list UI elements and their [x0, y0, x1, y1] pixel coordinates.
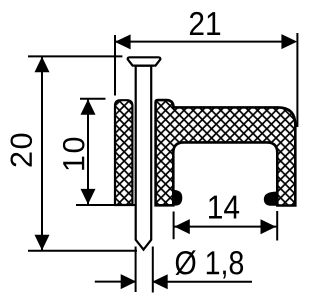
label diameter 1,8 — [175, 250, 243, 278]
diameter dimension left extension line — [135, 247, 137, 293]
dimension 10 line — [87, 99, 89, 205]
dimension 21 line — [116, 41, 295, 43]
clip left bar (hatched) — [115, 100, 132, 205]
dimension 14 arrow right — [261, 219, 277, 234]
dimension 21 left extension line — [114, 35, 116, 96]
dimension 20 bottom extension line — [28, 250, 137, 252]
dimension 14 line — [174, 226, 276, 228]
dimension 14 arrow left — [174, 219, 190, 234]
dimension 10 arrow up — [81, 99, 96, 115]
label 10 (rotated) — [63, 138, 85, 170]
diameter arrow pointing left — [152, 274, 168, 289]
clip main body (hatched) — [156, 100, 296, 205]
clip left foot (solid) — [172, 190, 182, 206]
diameter arrow pointing right — [121, 274, 137, 289]
dimension 21 arrow left — [115, 34, 131, 49]
dimension 20 line — [41, 56, 43, 250]
dimension 10 bottom extension line (runs under clip foot to nail) — [76, 204, 137, 206]
dimension 21 arrow right — [281, 34, 297, 49]
dimension 20 arrow down — [35, 235, 50, 251]
dimension 10 arrow down — [81, 189, 96, 205]
dimension 10 top extension line — [80, 98, 106, 100]
label 21 — [190, 12, 220, 35]
dimension 21 right extension line — [296, 33, 298, 127]
diameter dimension left line — [95, 281, 136, 283]
dimension 14 left extension line — [173, 212, 175, 240]
dimension 14 right extension line — [276, 211, 278, 241]
label 20 (rotated) — [11, 134, 33, 167]
nail head — [128, 57, 161, 65]
dimension 20 top extension line — [28, 55, 122, 57]
nail shaft and tip — [136, 66, 152, 250]
dimension 20 arrow up — [35, 57, 50, 73]
label 14 — [209, 196, 239, 219]
clip right foot (solid) — [264, 192, 279, 206]
diameter dimension right extension line — [152, 247, 154, 293]
diameter dimension right line — [152, 281, 252, 283]
